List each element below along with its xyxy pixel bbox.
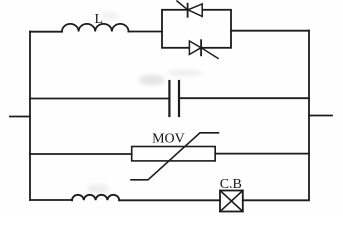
svg-text:C.B: C.B <box>220 177 242 192</box>
svg-text:MOV: MOV <box>152 131 185 146</box>
svg-text:L: L <box>95 12 104 27</box>
